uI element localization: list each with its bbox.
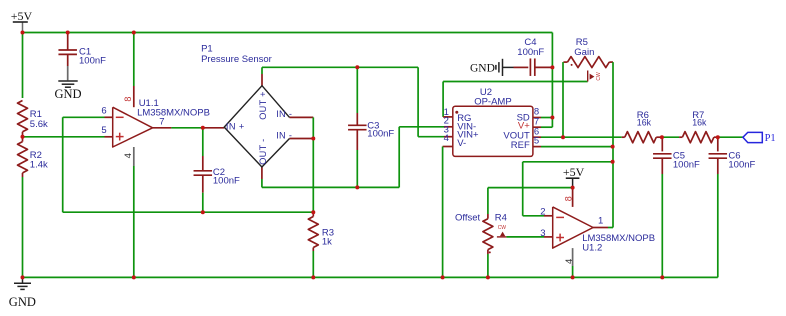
svg-text:3: 3 [540, 228, 545, 239]
svg-text:Offset: Offset [455, 213, 481, 224]
svg-text:100nF: 100nF [367, 129, 394, 140]
svg-text:1.4k: 1.4k [30, 160, 48, 171]
svg-text:8: 8 [123, 97, 133, 102]
svg-text:4: 4 [444, 133, 449, 144]
svg-text:1: 1 [598, 216, 603, 227]
svg-text:+5V: +5V [11, 9, 33, 23]
svg-text:100nF: 100nF [79, 55, 106, 66]
svg-text:Pressure Sensor: Pressure Sensor [201, 54, 272, 65]
svg-text:V-: V- [457, 138, 466, 149]
svg-text:GND: GND [9, 295, 36, 309]
svg-text:CW: CW [596, 72, 602, 81]
svg-text:2: 2 [540, 207, 545, 218]
svg-text:5.6k: 5.6k [30, 119, 48, 130]
svg-text:IN -: IN - [276, 130, 292, 140]
svg-text:CW: CW [498, 225, 507, 231]
svg-text:100nF: 100nF [673, 159, 700, 170]
svg-text:8: 8 [564, 196, 574, 201]
svg-text:OUT +: OUT + [258, 91, 268, 120]
svg-text:U1.2: U1.2 [582, 242, 602, 253]
svg-text:16k: 16k [692, 117, 707, 127]
svg-text:4: 4 [123, 153, 134, 158]
svg-text:Gain: Gain [574, 47, 594, 58]
svg-text:5: 5 [534, 136, 539, 147]
svg-text:4: 4 [564, 259, 575, 264]
svg-text:OP-AMP: OP-AMP [474, 96, 511, 107]
svg-text:GND: GND [55, 87, 82, 101]
svg-text:P1: P1 [765, 133, 776, 144]
svg-text:100nF: 100nF [213, 175, 240, 186]
svg-text:100nF: 100nF [728, 159, 755, 170]
svg-text:+5V: +5V [563, 165, 585, 179]
svg-text:LM358MX/NOPB: LM358MX/NOPB [137, 107, 210, 118]
svg-text:OUT -: OUT - [258, 138, 268, 164]
svg-text:7: 7 [159, 116, 164, 127]
svg-text:100nF: 100nF [517, 47, 544, 58]
svg-text:REF: REF [511, 140, 530, 151]
svg-text:IN +: IN + [226, 122, 245, 132]
svg-text:IN -: IN - [276, 109, 292, 119]
svg-text:GND: GND [470, 63, 495, 75]
svg-text:6: 6 [101, 106, 106, 117]
svg-text:1k: 1k [322, 236, 332, 247]
svg-text:R4: R4 [495, 213, 507, 224]
svg-text:5: 5 [101, 125, 106, 136]
svg-text:16k: 16k [637, 117, 652, 127]
svg-text:P1: P1 [201, 43, 213, 54]
